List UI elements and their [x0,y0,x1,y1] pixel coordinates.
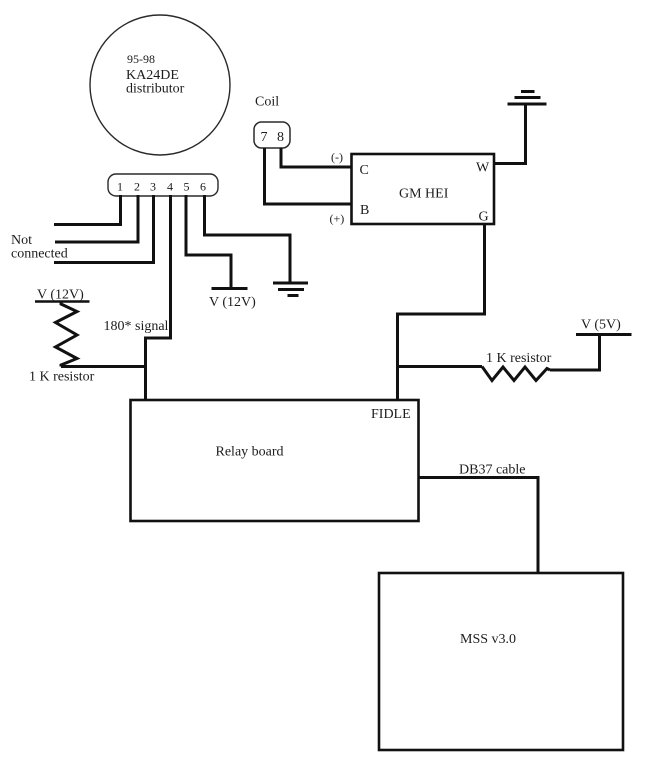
svg-text:Coil: Coil [255,95,279,110]
svg-text:DB37 cable: DB37 cable [459,463,525,478]
supply bar V (12V) for resistor R1 [35,288,90,303]
wire FIDLE node to resistor R2 [398,365,483,368]
coil connector (pins 7 8) [254,122,290,148]
svg-text:FIDLE: FIDLE [371,407,411,422]
svg-text:GM HEI: GM HEI [399,187,449,202]
supply bar V (5V) [576,318,632,335]
svg-text:6: 6 [200,180,206,194]
svg-text:C: C [360,163,369,178]
wire resistor R1 to pin-4 node [61,365,147,368]
wire resistor R2 to V (5V) [550,336,600,371]
wire pin 3 (not connected) [54,195,154,263]
GM HEI module U1 [352,154,495,225]
wire coil pin 7 to GM HEI B (+) [265,148,353,204]
svg-text:B: B [360,203,369,218]
label: (-) [331,150,343,164]
label: 1 K resistor (right) [486,351,552,366]
svg-text:Relay board: Relay board [216,445,284,460]
svg-text:connected: connected [11,247,68,262]
svg-text:7: 7 [261,130,268,145]
wire pin 5 to V(12V) [186,195,231,290]
svg-text:95-98: 95-98 [127,52,155,66]
svg-text:V (5V): V (5V) [581,318,621,333]
wire coil pin 8 to GM HEI C (-) [281,148,352,167]
svg-text:MSS v3.0: MSS v3.0 [460,632,516,647]
label: 180* signal [104,319,169,334]
supply bar V (12V) under pin 5 [209,289,256,311]
svg-text:2: 2 [134,180,140,194]
ground symbol (pin 6) [273,283,308,296]
wire DB37 cable relay board to MSS [419,478,539,575]
svg-text:3: 3 [150,180,156,194]
resistor R2 1K (horizontal zigzag) [482,367,550,381]
label: Not connected [11,233,68,262]
label: 1 K resistor (left) [29,370,95,385]
relay board module [131,400,419,521]
svg-text:W: W [476,161,490,176]
distributor body (95-98 KA24DE distributor) [90,15,230,155]
svg-text:G: G [479,210,489,225]
wire GM HEI W to ground [494,105,526,164]
svg-text:1 K resistor: 1 K resistor [486,351,552,366]
svg-text:180* signal: 180* signal [104,319,169,334]
wire GM HEI G to FIDLE node [398,224,485,401]
label: (+) [330,212,345,226]
label: DB37 cable [459,463,525,478]
svg-text:1 K resistor: 1 K resistor [29,370,95,385]
wire pin 6 to ground [205,195,291,283]
svg-text:1: 1 [117,180,123,194]
wire pin 4 (180 deg signal) down with jog to junction [146,195,171,401]
MSS v3.0 module [379,573,623,750]
label: Coil [255,95,279,110]
svg-text:5: 5 [184,180,190,194]
svg-text:V (12V): V (12V) [209,295,256,310]
svg-text:distributor: distributor [126,82,185,97]
svg-text:(-): (-) [331,150,343,164]
wire pin 2 (not connected) [55,195,138,242]
resistor R1 1K (vertical zigzag) [56,302,78,367]
svg-text:8: 8 [277,130,284,145]
svg-text:(+): (+) [330,212,345,226]
ground symbol (W pin, inverted) [508,92,547,105]
wire pin 1 (not connected) [54,195,121,225]
distributor connector J1 (pins 1-6) [108,174,218,196]
svg-text:4: 4 [167,180,173,194]
